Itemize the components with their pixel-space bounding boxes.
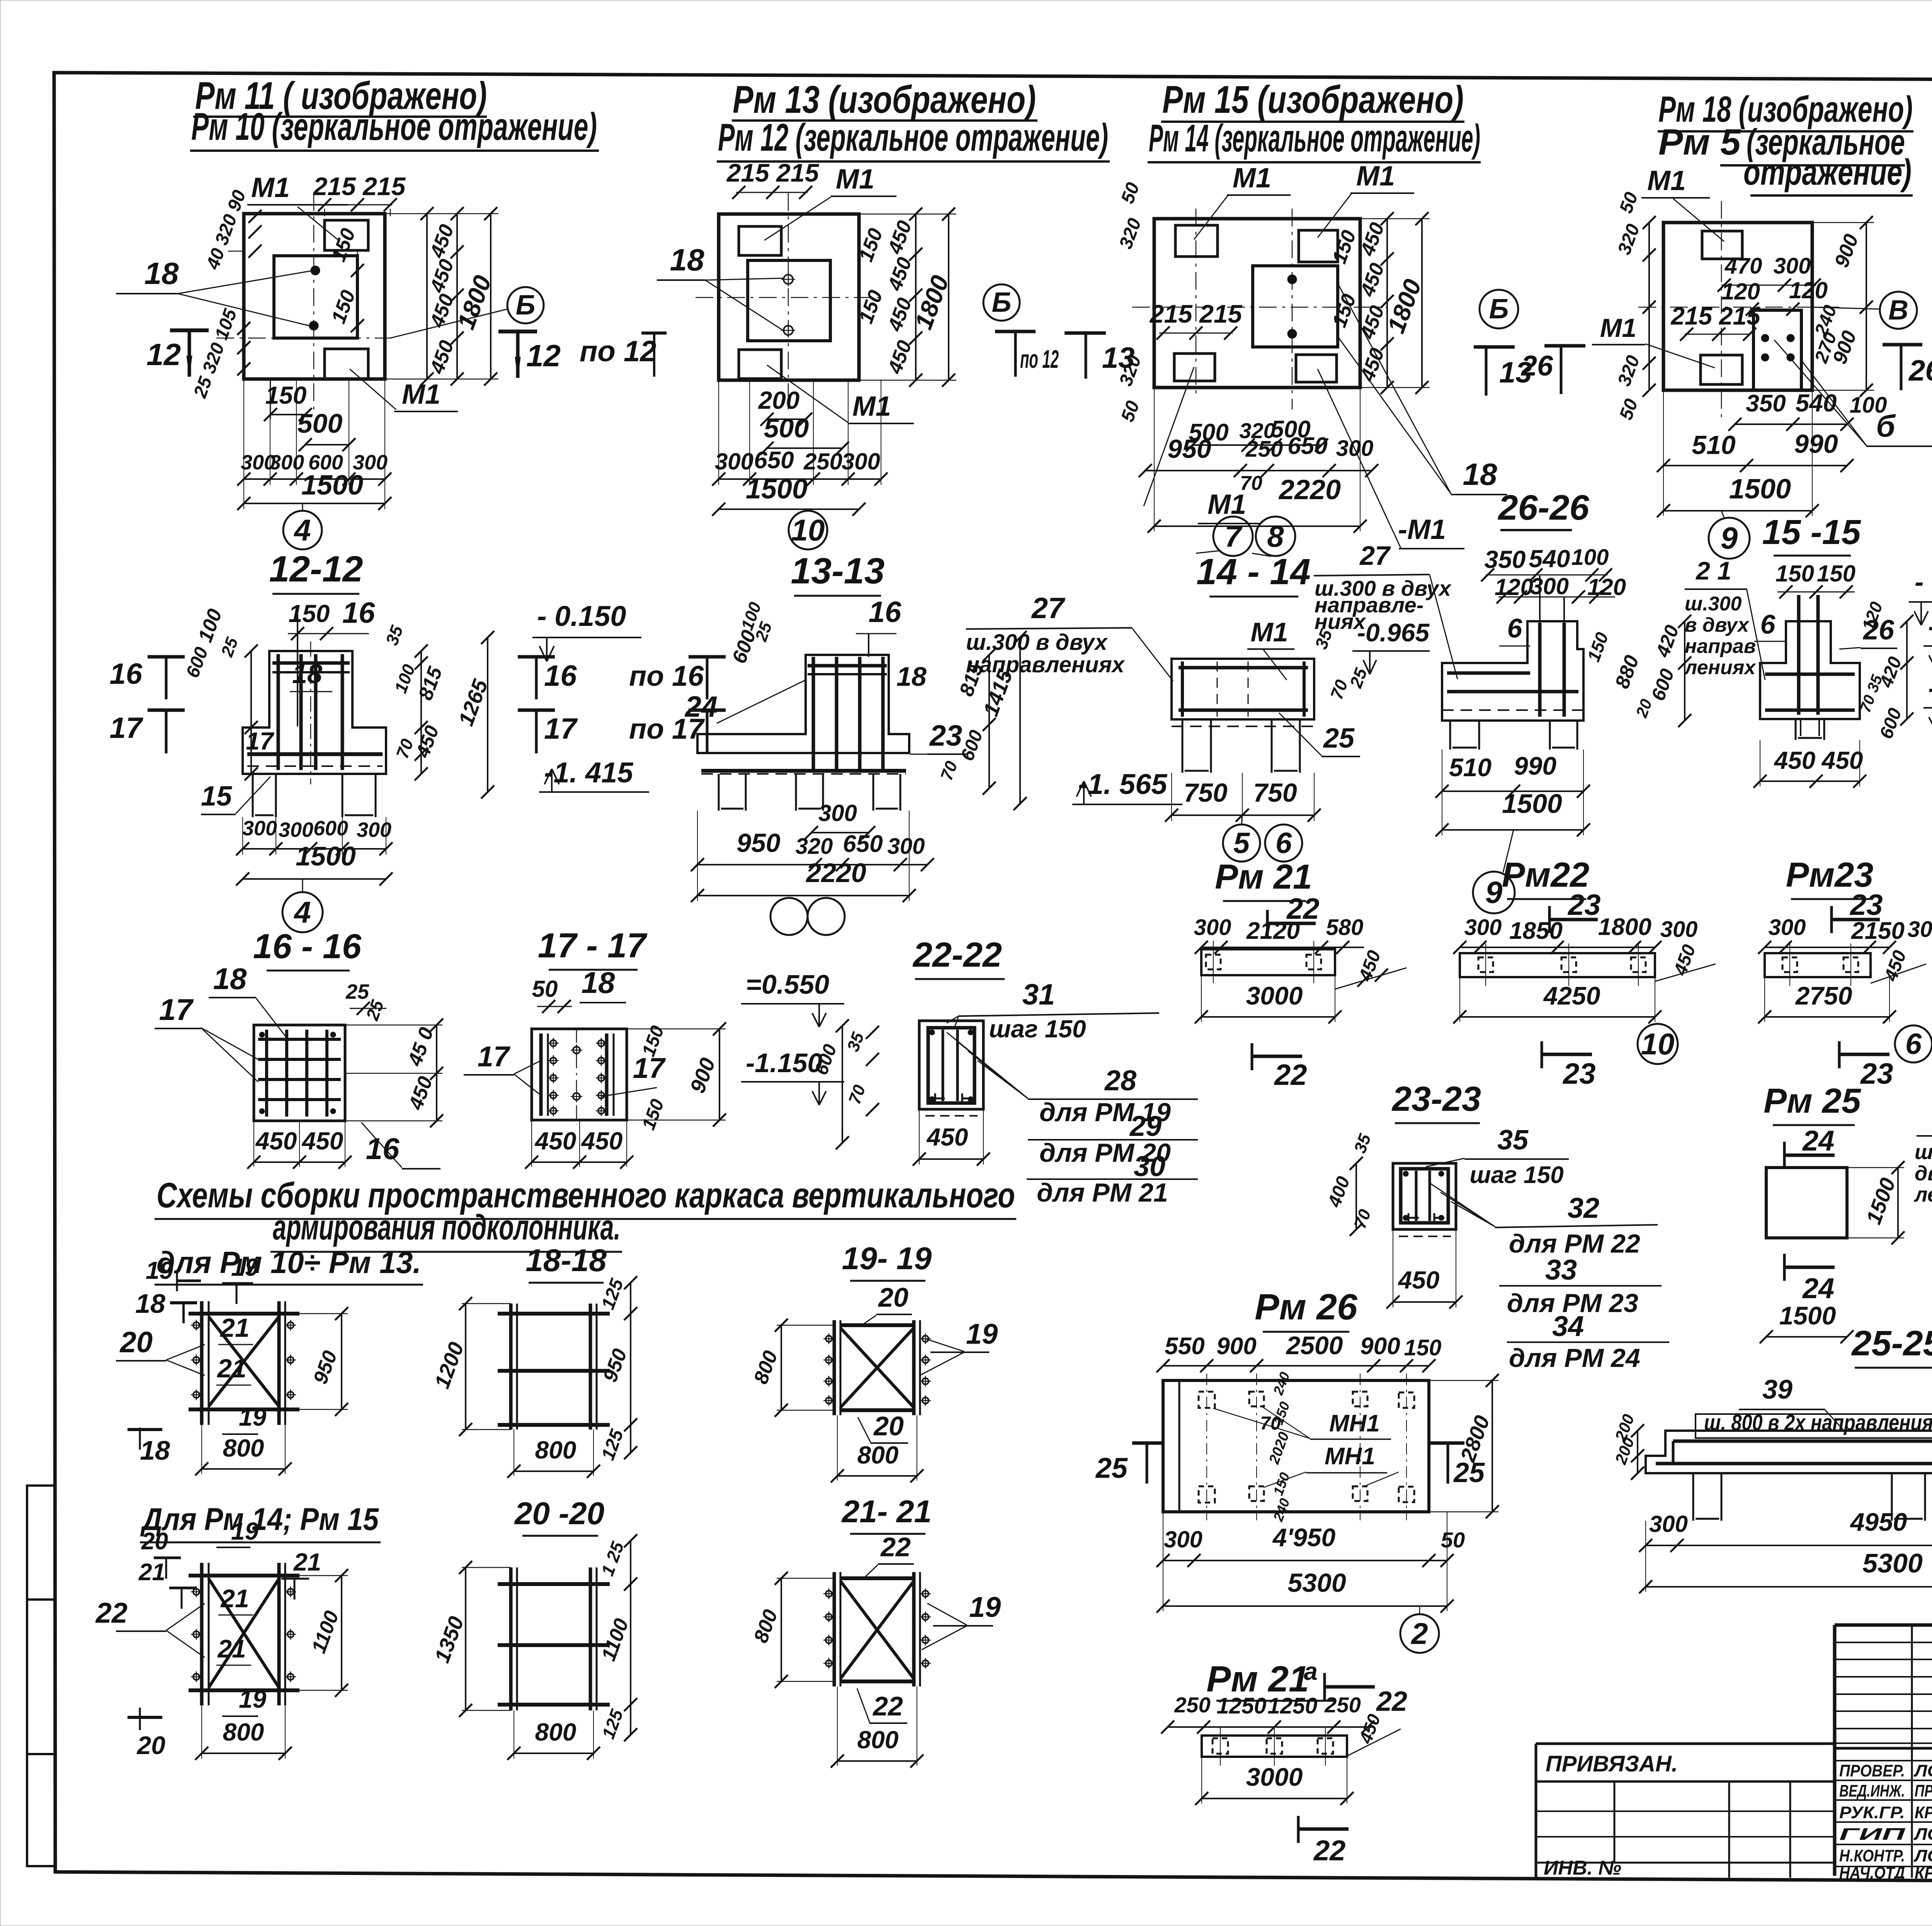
svg-text:800: 800 [535,1436,577,1464]
svg-text:15: 15 [201,781,232,812]
section 25-25 body [1646,1431,1932,1473]
svg-text:21- 21: 21- 21 [841,1494,932,1529]
section 25-25 rebar bottom [1656,1462,1932,1465]
beam Рм22 anchors [1478,957,1493,972]
section mark 12 right [498,330,537,333]
axis circle 9 Рм18 [1709,518,1750,559]
svg-text:ПРИВЯЗАН.: ПРИВЯЗАН. [1546,1751,1678,1776]
plan Рм11 outer outline [244,214,385,379]
section 13-13 base [697,752,909,754]
svg-text:17: 17 [159,993,194,1027]
plan Рм13 rebar points [784,275,793,284]
svg-text:750: 750 [1184,778,1228,807]
svg-text:215 215: 215 215 [313,172,406,201]
svg-text:ИНВ. №: ИНВ. № [1544,1857,1621,1879]
svg-text:М1: М1 [1647,165,1686,196]
svg-text:28: 28 [1104,1064,1137,1096]
svg-text:150: 150 [265,381,307,409]
svg-text:300: 300 [1908,917,1932,942]
beam Рм21а anchors dashed [1213,1738,1228,1754]
svg-text:4'950: 4'950 [1272,1523,1336,1552]
plan Рм18 embed plates M1 [1702,231,1742,259]
section mark 22 below Рм21а [1297,1816,1300,1843]
section 26-26 horizontal rebar [1447,690,1578,694]
svg-text:ш.300: ш.300 [1685,593,1742,615]
svg-text:17 - 17: 17 - 17 [538,926,648,965]
svg-text:1500: 1500 [746,474,808,505]
svg-text:800: 800 [223,1718,264,1746]
svg-text:25: 25 [345,980,369,1003]
svg-text:32: 32 [1568,1192,1599,1224]
svg-text:20: 20 [878,1282,908,1312]
plan Рм26 anchors top [1199,1392,1215,1408]
axis circles 5 6 below 14-14 [1223,824,1260,862]
svg-text:в двух: в двух [1685,614,1750,636]
svg-text:27: 27 [1031,592,1066,625]
plan Рм11 pedestal [274,256,357,338]
plan Рм11 rebar point 18 upper [311,266,320,275]
scheme2 X-frame [200,1563,204,1705]
svg-text:470: 470 [1725,253,1762,279]
section 12-12 centerline [310,641,311,784]
plan Рм26 anchors bottom [1199,1486,1215,1503]
svg-text:18: 18 [292,659,322,689]
svg-text:150: 150 [1776,561,1814,586]
svg-text:20: 20 [141,1528,168,1555]
axis circles below 13-13 [770,898,808,935]
svg-text:отражение): отражение) [1743,152,1912,193]
plan Рм13 embed plate M1 bottom [739,350,781,379]
svg-text:ПРОВЕР.: ПРОВЕР. [1839,1761,1905,1780]
svg-text:25: 25 [1323,723,1355,754]
svg-text:450: 450 [926,1123,968,1151]
detail 22-22 hooks bottom [935,1093,945,1103]
section 26-26 base dash [1442,709,1583,711]
svg-text:18: 18 [135,1289,165,1319]
scheme 18-18 frame [509,1304,513,1430]
svg-text:-1.150: -1.150 [746,1048,823,1078]
svg-text:450: 450 [255,1127,297,1155]
svg-text:120: 120 [1721,279,1760,304]
svg-text:ЛОУЦКЕР: ЛОУЦКЕР [1913,1846,1932,1865]
svg-text:21: 21 [293,1548,321,1576]
svg-text:22: 22 [872,1691,903,1721]
svg-text:215 215: 215 215 [726,158,820,187]
svg-text:ш 700 б: ш 700 б [1915,1141,1932,1164]
svg-text:22: 22 [1376,1686,1407,1717]
svg-text:7: 7 [1225,519,1243,553]
svg-text:33: 33 [1545,1254,1577,1286]
svg-text:4250: 4250 [1543,981,1600,1010]
svg-text:Б: Б [992,287,1012,318]
plan Рм18 anchor dots [1761,334,1769,342]
svg-text:300: 300 [842,449,880,474]
svg-text:900: 900 [1216,1333,1256,1360]
detail 16-16 outer square [254,1025,345,1121]
svg-text:Рм 13 (изображено): Рм 13 (изображено) [733,78,1036,121]
plan Рм18 centerlines [1638,307,1839,308]
detail 23-23 inner stirrup [1401,1169,1448,1223]
svg-text:510: 510 [1692,430,1736,460]
svg-text:70: 70 [1240,472,1262,495]
svg-text:17: 17 [544,712,578,745]
svg-text:17: 17 [109,712,143,745]
svg-text:М1: М1 [251,172,290,203]
section 14-14 piles [1182,719,1211,773]
section 15-15 vertical rebars [1797,595,1801,715]
svg-text:18: 18 [1463,457,1497,491]
svg-text:20 -20: 20 -20 [514,1496,605,1531]
svg-text:19- 19: 19- 19 [842,1241,932,1276]
detail 23-23 dashed bottom [1399,1236,1451,1237]
left stamp column boxes [27,1486,55,1866]
svg-text:4: 4 [293,895,311,929]
svg-text:21: 21 [216,1354,247,1383]
svg-text:24: 24 [1802,1272,1834,1304]
plan Рм15 outer outline [1154,219,1360,388]
section 12-12 top rebar ties [272,661,350,665]
detail 17-17 mid dots [573,1047,580,1054]
svg-text:300: 300 [1164,1527,1202,1552]
svg-text:19: 19 [231,1253,259,1281]
svg-text:19: 19 [239,1685,267,1713]
section marks 13 / 26 [1474,345,1515,349]
plan Рм15 pedestal [1253,266,1338,347]
svg-text:215 215: 215 215 [1670,302,1761,330]
svg-text:4950: 4950 [1850,1508,1907,1536]
svg-text:21: 21 [217,1634,246,1663]
axis circle Б Рм13 [983,284,1020,321]
section mark 26 right [1883,343,1922,347]
section 13-13 top ties [808,664,887,668]
detail 17-17 left rebar bar [539,1034,543,1116]
svg-text:ПРОХОРОВА: ПРОХОРОВА [1915,1782,1932,1800]
svg-text:150: 150 [1404,1335,1442,1360]
svg-text:ВЕД.ИНЖ.: ВЕД.ИНЖ. [1839,1782,1905,1800]
svg-text:22: 22 [95,1597,128,1629]
svg-text:800: 800 [857,1441,899,1469]
svg-text:4: 4 [293,513,311,547]
svg-text:12-12: 12-12 [269,549,363,590]
svg-text:5300: 5300 [1287,1568,1346,1598]
privyazan block [1536,1744,1835,1878]
svg-text:200: 200 [758,386,800,414]
svg-text:300: 300 [1660,917,1698,942]
svg-text:М1: М1 [1250,617,1288,647]
svg-text:двух направ-: двух направ- [1915,1162,1932,1185]
svg-text:а: а [1304,1657,1318,1685]
svg-text:550: 550 [1165,1333,1204,1360]
svg-text:800: 800 [857,1726,899,1754]
svg-text:450: 450 [581,1127,623,1155]
svg-text:16: 16 [544,660,577,692]
plan Рм11 embed plate M1 bottom [325,349,368,379]
svg-text:шаг 150: шаг 150 [989,1015,1086,1043]
section 13-13 piles [719,774,746,811]
svg-text:- 0.180: - 0.180 [1915,567,1932,597]
axis circle 6 Рм23 [1895,1025,1932,1062]
svg-text:250: 250 [1324,1693,1361,1717]
svg-text:23: 23 [1860,1057,1893,1090]
svg-text:12: 12 [526,338,561,373]
plan Рм13 centerlines [696,297,885,298]
svg-text:18: 18 [670,243,704,277]
section 25-25 rebar top [1673,1440,1932,1443]
section marks 16 17 right [518,655,555,659]
svg-text:510: 510 [1449,753,1492,782]
section 14-14 body [1172,659,1314,719]
svg-text:215 215: 215 215 [1149,299,1243,328]
plan Рм18 small pedestal [1753,310,1801,390]
svg-text:М1: М1 [1233,163,1271,194]
svg-text:-1.200: -1.200 [1928,673,1932,703]
svg-text:по 12: по 12 [580,335,656,368]
axis circle 10 Рм22 [1638,1024,1678,1064]
section 13-13 vertical rebars [812,657,815,770]
section 14-14 rebar lines [1179,666,1308,670]
svg-text:1800: 1800 [1598,914,1651,940]
beam Рм23 anchors [1782,957,1797,972]
svg-text:18: 18 [896,661,927,692]
svg-text:16: 16 [366,1132,400,1166]
svg-text:армирования подколонника.: армирования подколонника. [273,1208,621,1247]
svg-text:13-13: 13-13 [791,551,885,592]
svg-text:19: 19 [239,1403,267,1431]
section marks 16 17 left [148,655,185,659]
svg-text:150: 150 [289,600,330,627]
svg-text:направлениях: направлениях [966,652,1126,677]
svg-text:1850: 1850 [1509,918,1563,944]
section 12-12 pedestal outline [243,651,386,774]
svg-text:23-23: 23-23 [1391,1080,1481,1119]
svg-text:35: 35 [1497,1125,1529,1156]
svg-text:-0.965: -0.965 [1357,618,1430,647]
axis circle 10 [789,511,827,549]
svg-text:- 0.150: - 0.150 [537,600,626,632]
svg-text:19: 19 [969,1591,1001,1623]
svg-text:В: В [1888,295,1908,326]
section 25-25 piles [1693,1473,1721,1521]
svg-text:2 1: 2 1 [1695,556,1731,585]
svg-text:МН1: МН1 [1329,1410,1380,1437]
svg-text:300: 300 [1464,915,1502,940]
plan Рм26 anchor centerlines [1206,1374,1207,1520]
svg-text:5300: 5300 [1862,1548,1923,1578]
svg-text:29: 29 [1129,1110,1162,1142]
svg-text:18: 18 [145,256,179,291]
svg-text:450: 450 [301,1127,344,1155]
svg-text:450: 450 [534,1127,577,1155]
svg-text:22-22: 22-22 [912,936,1002,974]
section mark 23 below Рм22 [1541,1041,1543,1068]
scheme1 X-frame [200,1301,204,1425]
svg-text:9: 9 [1721,521,1738,555]
svg-text:450: 450 [1398,1266,1440,1294]
svg-text:10: 10 [1641,1027,1675,1061]
axis circle Б Рм15 [1480,290,1518,328]
section 12-12 base dashed line [247,765,383,767]
plan Рм11 rebar point 18 lower [309,321,318,330]
section mark 23 above Рм22 [1548,906,1551,933]
svg-text:1500: 1500 [1729,474,1791,505]
axis circle В Рм18 [1880,292,1917,329]
svg-text:РУК.ГР.: РУК.ГР. [1839,1803,1905,1822]
svg-text:для Рм 10÷ Рм 13.: для Рм 10÷ Рм 13. [156,1245,421,1280]
axis circle 4 below 12-12 [282,892,323,932]
svg-text:20: 20 [136,1731,166,1759]
svg-text:18: 18 [582,966,615,1000]
svg-text:для РМ 24: для РМ 24 [1509,1343,1640,1373]
svg-text:300: 300 [1194,915,1231,940]
svg-text:350: 350 [1746,390,1786,417]
section 26-26 vertical rebars [1538,623,1542,717]
svg-text:2220: 2220 [805,858,866,888]
svg-text:990: 990 [1794,429,1838,459]
svg-text:6: 6 [1507,613,1523,643]
plan Рм11 embed plate M1 top [325,220,368,250]
svg-text:22: 22 [1313,1834,1345,1867]
svg-text:17: 17 [246,727,275,755]
svg-text:23: 23 [1849,889,1883,921]
svg-text:120: 120 [1789,277,1828,303]
svg-text:50: 50 [532,976,558,1002]
svg-text:ЛОУЦКЕР: ЛОУЦКЕР [1913,1825,1932,1844]
svg-text:600: 600 [313,817,348,840]
svg-text:шаг 150: шаг 150 [1469,1162,1563,1188]
beam Рм22 plan [1460,953,1655,977]
svg-text:540: 540 [1529,545,1570,573]
svg-text:16 - 16: 16 - 16 [253,927,362,966]
dim rows right of plan [426,214,428,379]
svg-text:Рм 26: Рм 26 [1255,1287,1358,1328]
svg-text:1500: 1500 [1502,789,1562,819]
section mark 12 left [170,328,209,332]
svg-text:=0.550: =0.550 [746,969,829,1000]
svg-text:950: 950 [1167,434,1211,464]
svg-text:300: 300 [1530,573,1569,599]
square Рм25 [1766,1168,1847,1238]
svg-text:120: 120 [1587,574,1626,600]
svg-text:Б: Б [516,290,536,321]
svg-text:по 12: по 12 [1020,345,1059,373]
svg-text:Рм 21: Рм 21 [1215,858,1312,896]
svg-text:100: 100 [1850,393,1887,418]
section mark 23 above Рм23 [1830,906,1833,933]
svg-text:20: 20 [873,1411,904,1441]
svg-text:300: 300 [818,800,857,826]
svg-text:25: 25 [1453,1457,1485,1488]
plan Рм15 rebar points [1287,275,1297,284]
svg-text:6: 6 [1760,609,1776,639]
section 26-26 piles [1450,721,1479,750]
section marks 25 Рм26 [1132,1442,1163,1445]
svg-text:Рм 14 (зеркальное отражение): Рм 14 (зеркальное отражение) [1149,117,1480,160]
section 26-26 pedestal [1442,621,1583,721]
svg-text:1250: 1250 [1216,1693,1266,1719]
svg-text:800: 800 [535,1718,577,1746]
svg-text:19: 19 [231,1517,259,1545]
svg-text:39: 39 [1762,1374,1793,1404]
svg-text:320: 320 [796,834,833,859]
svg-text:26: 26 [1908,354,1932,387]
svg-text:Рм 12 (зеркальное отражение): Рм 12 (зеркальное отражение) [718,116,1108,159]
svg-text:-1. 565: -1. 565 [1078,768,1168,800]
svg-text:300: 300 [1769,915,1806,940]
svg-text:2220: 2220 [1278,474,1341,505]
scheme 19-19 frame [833,1320,836,1415]
svg-text:300: 300 [1336,436,1374,461]
svg-text:990: 990 [1514,751,1556,780]
svg-text:Б: Б [1489,294,1509,325]
svg-text:300: 300 [279,818,313,841]
svg-text:540: 540 [1796,389,1837,417]
svg-text:19: 19 [146,1256,173,1284]
svg-text:для РМ 21: для РМ 21 [1037,1178,1168,1207]
svg-text:500: 500 [298,408,343,439]
svg-text:19: 19 [966,1318,998,1350]
detail 22-22 dashed bottom [925,1115,978,1117]
svg-text:1250: 1250 [1267,1693,1317,1719]
svg-text:лениях: лениях [1913,1183,1932,1206]
detail 22-22 vertical bars [942,1030,944,1101]
axis circle 2 Рм26 [1400,1614,1439,1653]
plan Рм13 outer outline [719,214,859,380]
svg-text:2: 2 [1410,1617,1428,1651]
svg-text:24: 24 [1802,1125,1834,1157]
svg-text:Рм 25: Рм 25 [1764,1082,1862,1120]
plan Рм15 embed plates M1 [1175,225,1218,257]
section 12-12 base rebar [247,752,383,756]
scheme 21-21 frame [833,1572,836,1686]
svg-text:КРАСНОВА: КРАСНОВА [1915,1803,1932,1822]
section mark 22 above Рм21 [1266,910,1269,937]
axis circle Б [507,287,544,323]
svg-text:23: 23 [929,719,963,752]
detail 17-17 outer square [532,1029,627,1120]
svg-text:18: 18 [213,962,247,996]
svg-text:10: 10 [791,513,825,547]
svg-text:650: 650 [754,447,794,474]
dims right of Рм15 [1386,219,1388,388]
svg-text:25: 25 [1095,1452,1128,1484]
svg-text:500: 500 [764,413,809,443]
section mark 24 above [1783,1142,1786,1169]
detail 23-23 bars [1415,1171,1418,1221]
svg-text:Для Рм 14; Рм 15: Для Рм 14; Рм 15 [140,1502,379,1537]
svg-text:8: 8 [1267,519,1284,553]
svg-text:250: 250 [1174,1693,1210,1717]
svg-text:М1: М1 [1600,313,1636,343]
svg-text:Рм 5: Рм 5 [1658,122,1741,163]
svg-text:23: 23 [1567,889,1601,921]
plan Рм15 centerlines [1132,307,1387,308]
svg-text:-М1: -М1 [1398,514,1446,545]
detail 22-22 inner stirrup [928,1028,975,1103]
svg-text:16: 16 [342,597,375,629]
svg-text:800: 800 [223,1434,264,1462]
section 13-13 pedestal outline [697,655,909,753]
axis circle 4 [283,511,322,549]
svg-text:20: 20 [119,1326,153,1359]
svg-text:5: 5 [1233,827,1250,860]
axis circles 7 8 [1213,517,1253,556]
svg-text:120: 120 [1495,574,1533,600]
plan Рм26 inner left line [1179,1380,1180,1512]
svg-text:14 - 14: 14 - 14 [1196,551,1311,592]
detail 22-22 corner dots [929,1030,935,1035]
svg-text:М1: М1 [836,164,874,195]
svg-text:ЛОУЦКЕР: ЛОУЦКЕР [1913,1761,1932,1780]
